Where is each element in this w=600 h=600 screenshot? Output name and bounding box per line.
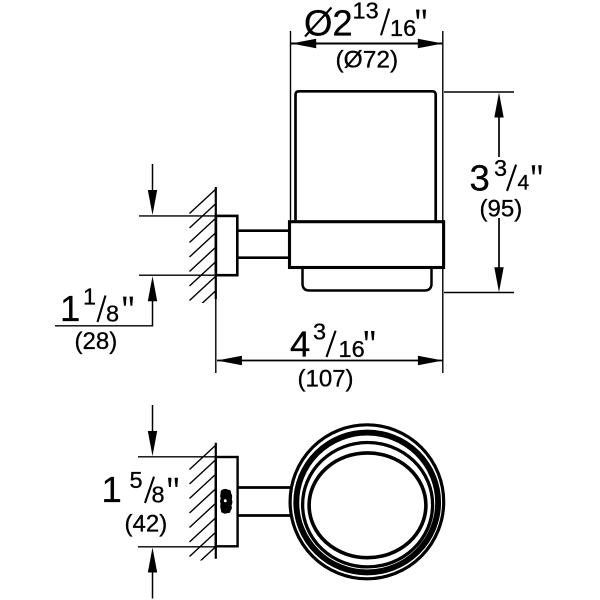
dim 107: dimension line <box>217 360 443 362</box>
dim 28: lower arrow (points up) <box>152 298 154 326</box>
dim 28: upper arrow (points down) <box>152 164 154 196</box>
arm (top view) <box>236 488 291 516</box>
ring outer ellipse <box>290 425 444 579</box>
glass upper body <box>296 91 436 224</box>
wall line (lower) <box>215 443 217 559</box>
mount block (side view) <box>216 216 237 275</box>
holder ring (side view) <box>290 222 444 268</box>
node: left arrowhead of diameter dim <box>291 39 316 48</box>
svg-text:16: 16 <box>390 15 416 41</box>
glass base (below holder) <box>303 262 432 291</box>
svg-text:5: 5 <box>130 467 143 493</box>
dim 42: extension top <box>138 456 238 458</box>
wire: extension line bottom of mount block <box>139 274 216 276</box>
svg-text:(95): (95) <box>480 196 523 223</box>
text: diameter 2 13/16" <box>304 0 426 44</box>
glass inner ellipse <box>309 453 426 558</box>
svg-text:(107): (107) <box>298 366 354 393</box>
text: 1 1/8" <box>60 283 133 329</box>
wire: diameter dimension line <box>291 43 443 45</box>
svg-text:1: 1 <box>102 469 122 510</box>
text: 1 5/8" <box>102 467 179 510</box>
svg-text:(42): (42) <box>125 510 168 537</box>
svg-text:3: 3 <box>313 319 326 345</box>
svg-text:3: 3 <box>494 155 507 181</box>
svg-text:O2: O2 <box>304 3 353 44</box>
dim 42: extension bottom <box>138 546 238 548</box>
dim 42: bottom arrow (points up) <box>152 570 154 599</box>
mount block (top view) <box>216 457 238 546</box>
wall hatching (upper) <box>190 189 217 316</box>
arm (side view) <box>236 231 291 258</box>
wire: extension line right (shared by dia + width dims) <box>442 31 444 373</box>
text: 4 3/16" <box>290 319 375 365</box>
svg-text:(Ø72): (Ø72) <box>336 46 399 73</box>
dim 95: bottom extension <box>444 292 514 294</box>
node: right arrowhead of diameter dim <box>418 39 443 48</box>
wire: extension below wall to width dim <box>215 299 217 373</box>
dim 95: dimension line w/ arrows <box>498 117 500 157</box>
svg-text:8: 8 <box>152 481 165 507</box>
dim 95: top extension <box>444 91 514 93</box>
svg-text:(28): (28) <box>75 328 118 355</box>
svg-text:4: 4 <box>290 324 310 365</box>
wall hatching (lower) <box>190 445 217 572</box>
svg-text:16: 16 <box>339 336 365 362</box>
svg-text:8: 8 <box>106 300 119 326</box>
svg-text:3: 3 <box>470 158 490 199</box>
svg-text:1: 1 <box>83 283 96 309</box>
svg-text:13: 13 <box>353 0 379 24</box>
dim 28: text leader underline <box>55 325 153 327</box>
wall line (upper) <box>215 187 217 299</box>
text: 3 3/4" <box>470 155 542 199</box>
dim 42: top arrow (points down) <box>152 405 154 434</box>
wire: extension line top of mount block <box>139 215 216 217</box>
wire: extension line left of diameter dim <box>290 31 292 221</box>
glass rim ellipse <box>303 443 433 567</box>
screw scribble <box>220 489 232 514</box>
ring thick ellipse <box>296 433 438 573</box>
svg-text:1: 1 <box>60 288 80 329</box>
svg-text:4: 4 <box>518 171 530 194</box>
